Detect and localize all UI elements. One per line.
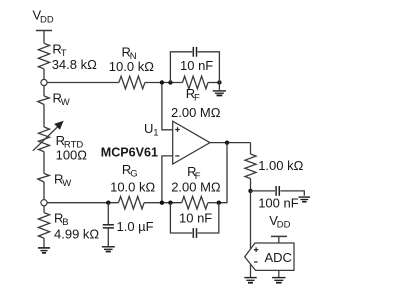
wire (to 100nF) bbox=[251, 190, 276, 192]
wire (ADC bottom to ground) bbox=[278, 270, 280, 277]
wire (RN to RF top) bbox=[145, 82, 183, 84]
label RF top bbox=[186, 86, 200, 104]
wire bbox=[43, 31, 45, 44]
ground (ADC minus) bbox=[244, 278, 256, 283]
svg-text:100Ω: 100Ω bbox=[56, 147, 88, 162]
op-amp minus mark bbox=[175, 155, 179, 157]
node (noninverting branch) bbox=[160, 80, 164, 84]
wire (ADC minus to ground) bbox=[250, 264, 252, 277]
capacitor 1.0uF bbox=[103, 225, 114, 228]
node (RF top right / ground tap) bbox=[217, 80, 221, 84]
resistor RW (upper) bbox=[38, 96, 50, 105]
label RG bbox=[122, 162, 138, 180]
op-amp U1 bbox=[173, 121, 210, 164]
label RB bbox=[54, 210, 69, 228]
power bar VDD right bbox=[271, 235, 287, 237]
ground (ADC pin) bbox=[272, 278, 285, 283]
svg-text:10 nF: 10 nF bbox=[179, 210, 212, 225]
svg-text:34.8 kΩ: 34.8 kΩ bbox=[52, 57, 97, 72]
svg-text:DD: DD bbox=[40, 15, 54, 26]
ground (100nF) bbox=[299, 197, 311, 202]
wire (cap loop top left) bbox=[170, 52, 192, 83]
capacitor 10nF top bbox=[193, 47, 196, 57]
resistor 1.00k bbox=[245, 154, 256, 179]
svg-text:2.00 MΩ: 2.00 MΩ bbox=[171, 180, 221, 195]
resistor RF (bottom) bbox=[182, 196, 208, 209]
capacitor 100nF bbox=[276, 186, 279, 196]
svg-text:10.0 kΩ: 10.0 kΩ bbox=[110, 180, 155, 195]
svg-text:100 nF: 100 nF bbox=[258, 196, 299, 211]
node B (RW/RB tap) bbox=[41, 200, 47, 206]
label VDD right bbox=[269, 213, 290, 231]
resistor RN bbox=[119, 76, 145, 89]
svg-text:1.0 µF: 1.0 µF bbox=[117, 219, 154, 234]
wire bbox=[43, 69, 45, 80]
wire (node A to RN) bbox=[47, 82, 119, 84]
svg-text:MCP6V61: MCP6V61 bbox=[101, 146, 158, 160]
wire (node B to RG) bbox=[47, 202, 118, 204]
node (RC top left) bbox=[168, 80, 172, 84]
wire (feedback down) bbox=[219, 143, 227, 203]
wire (inverting input) bbox=[162, 156, 173, 202]
svg-text:1: 1 bbox=[153, 128, 158, 139]
svg-text:4.99 kΩ: 4.99 kΩ bbox=[54, 226, 99, 241]
node (RF bottom right) bbox=[217, 201, 221, 205]
label RW upper bbox=[53, 90, 70, 108]
svg-text:1.00 kΩ: 1.00 kΩ bbox=[258, 158, 303, 173]
wire bbox=[43, 238, 45, 247]
svg-text:2.00 MΩ: 2.00 MΩ bbox=[171, 105, 221, 120]
label RN bbox=[122, 45, 137, 63]
wire bbox=[43, 86, 45, 96]
wire (cap loop top right) bbox=[198, 52, 220, 83]
wire (noninverting input) bbox=[162, 84, 173, 130]
wire bbox=[43, 182, 45, 200]
label RF bottom bbox=[187, 164, 201, 182]
label U1 bbox=[144, 121, 159, 139]
resistor RRTD bbox=[39, 127, 50, 152]
wire (cap loop bottom left) bbox=[170, 203, 192, 233]
wire bbox=[208, 82, 219, 84]
wire (cap loop bottom right) bbox=[198, 203, 219, 233]
svg-text:G: G bbox=[130, 168, 137, 179]
label VDD left bbox=[33, 8, 54, 26]
resistor RG bbox=[119, 196, 145, 209]
node (output junction) bbox=[225, 140, 229, 144]
wire (output to R 1k) bbox=[250, 143, 252, 154]
wire (output) bbox=[210, 142, 251, 144]
op-amp plus mark bbox=[175, 127, 180, 132]
ADC block bbox=[245, 243, 294, 270]
wire (to ADC plus input) bbox=[250, 191, 252, 249]
RRTD variable arrow bbox=[33, 121, 64, 151]
svg-text:U: U bbox=[144, 121, 153, 136]
svg-text:W: W bbox=[61, 97, 70, 108]
svg-text:W: W bbox=[62, 178, 71, 189]
ADC minus mark bbox=[254, 261, 258, 263]
power bar VDD left bbox=[36, 30, 52, 32]
ground (top RC) bbox=[213, 91, 226, 96]
wire bbox=[43, 206, 45, 213]
svg-text:F: F bbox=[194, 92, 200, 103]
wire (to 1.0uF) bbox=[107, 203, 109, 225]
wire bbox=[250, 179, 252, 191]
node (ADC input junction) bbox=[248, 189, 252, 193]
wire bbox=[43, 152, 45, 174]
wire bbox=[280, 191, 304, 196]
svg-text:10.0 kΩ: 10.0 kΩ bbox=[109, 59, 154, 74]
wire bbox=[43, 105, 45, 128]
wire bbox=[107, 228, 109, 246]
resistor RF (top) bbox=[183, 76, 209, 89]
label RT bbox=[52, 42, 66, 60]
ground (below 1.0uF) bbox=[102, 247, 115, 252]
resistor RB bbox=[38, 213, 49, 239]
svg-text:DD: DD bbox=[277, 219, 291, 230]
ground (below RB) bbox=[38, 248, 50, 253]
label RW lower bbox=[54, 171, 71, 189]
wire bbox=[218, 83, 220, 91]
node (RC bottom left) bbox=[168, 201, 172, 205]
label RRTD bbox=[56, 133, 84, 151]
node (1.0uF tap) bbox=[106, 201, 110, 205]
node (inverting branch) bbox=[160, 201, 164, 205]
svg-text:ADC: ADC bbox=[265, 250, 292, 265]
wire bbox=[208, 202, 219, 204]
node VDD (left supply) bbox=[36, 31, 52, 44]
wire (RG to RF bottom) bbox=[144, 202, 182, 204]
capacitor 10nF bottom bbox=[193, 228, 196, 238]
wire bbox=[278, 236, 280, 243]
svg-text:10 nF: 10 nF bbox=[180, 58, 213, 73]
ADC plus mark bbox=[254, 247, 259, 252]
node A (RT/RW tap) bbox=[41, 79, 47, 85]
resistor RT bbox=[38, 43, 49, 69]
resistor RW (lower) bbox=[38, 174, 50, 183]
